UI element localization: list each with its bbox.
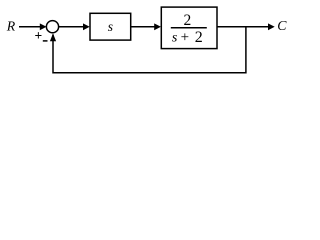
wire transfer block to C bbox=[217, 26, 270, 28]
summing junction circle bbox=[46, 21, 58, 33]
svg-text:+: + bbox=[34, 28, 42, 43]
svg-text:s: s bbox=[108, 19, 113, 34]
feedback wire: down from output, left along bottom, up to summing junction bbox=[53, 27, 246, 73]
svg-text:+: + bbox=[181, 30, 189, 46]
svg-text:2: 2 bbox=[184, 12, 192, 29]
svg-text:2: 2 bbox=[195, 29, 203, 46]
arrowhead into s block bbox=[83, 23, 90, 30]
wire R to summing junction bbox=[19, 26, 42, 28]
block s bbox=[90, 13, 131, 40]
arrowhead into transfer block bbox=[154, 23, 161, 30]
block 2/(s+2) bbox=[161, 7, 217, 49]
wire summing junction to s block bbox=[59, 26, 85, 28]
arrowhead into summing junction bbox=[40, 23, 47, 30]
svg-text:C: C bbox=[277, 18, 287, 33]
arrowhead to C bbox=[268, 23, 275, 30]
svg-text:R: R bbox=[6, 18, 16, 33]
fraction bar bbox=[171, 27, 207, 29]
svg-text:s: s bbox=[172, 30, 178, 45]
arrowhead up into summing junction bbox=[50, 33, 56, 41]
wire s block to transfer block bbox=[131, 26, 156, 28]
minus sign label bbox=[43, 40, 48, 42]
